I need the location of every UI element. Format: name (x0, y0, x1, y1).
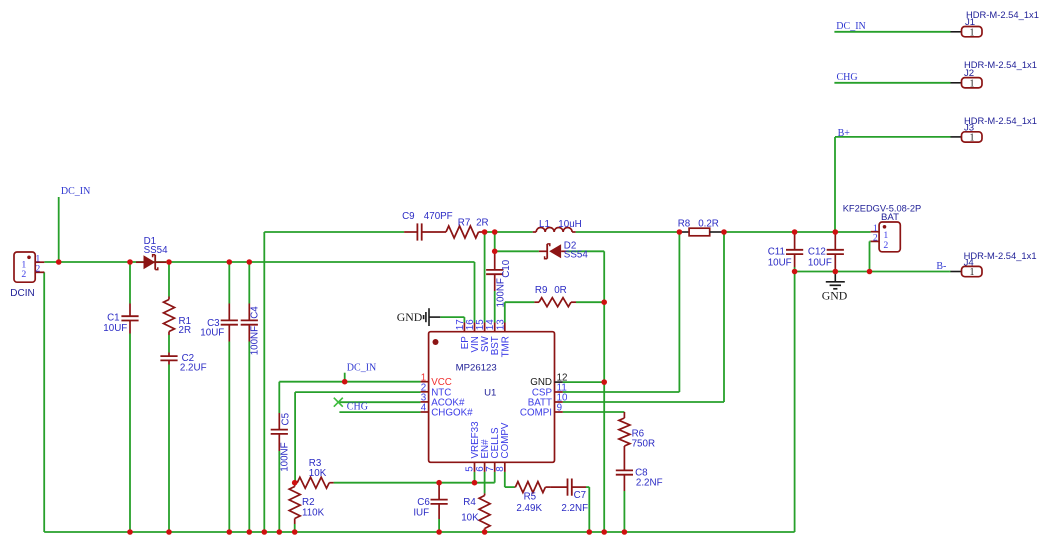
wire: main DC_IN rail y262 from DCIN pin1 to VIN corner (44, 261, 474, 263)
wire: EP ground link to U1 pin 17 (440, 316, 464, 318)
svg-text:2.2NF: 2.2NF (636, 477, 663, 488)
U1 pin 7 CELLS (494, 462, 496, 472)
wire: BST/C10 drop from SW node (494, 232, 496, 252)
connector J4 HDR-M-2.54_1x1 (951, 271, 962, 273)
wire: C10 to U1 pin 14 (494, 291, 496, 323)
svg-text:C12: C12 (808, 247, 826, 258)
wire: R4 bottom to bus (484, 529, 486, 533)
svg-text:R7: R7 (458, 218, 471, 229)
svg-text:SS54: SS54 (564, 249, 589, 260)
connector BAT KF2EDGV-5.08-2P (879, 222, 900, 252)
svg-text:C7: C7 (574, 490, 587, 501)
capacitor C8 2.2NF (616, 469, 633, 471)
capacitor C5 100NF (278, 413, 280, 430)
svg-text:J4: J4 (964, 258, 975, 269)
U1 pin 14 BST (494, 323, 496, 332)
capacitor C7 2.2NF (550, 486, 567, 488)
svg-text:0.2R: 0.2R (698, 218, 719, 229)
svg-text:10K: 10K (461, 512, 479, 523)
wire: C4 branch (248, 262, 250, 304)
U1 pin 3 ACOK# (421, 401, 429, 403)
svg-text:2.2UF: 2.2UF (180, 363, 207, 374)
svg-text:2: 2 (35, 263, 40, 274)
wire: C6 bottom to bus (438, 519, 440, 532)
unconnected-end marker X on ACOK# wire (334, 398, 343, 407)
svg-text:C5: C5 (281, 412, 292, 425)
svg-text:R5: R5 (524, 491, 537, 502)
svg-text:13: 13 (495, 319, 506, 330)
svg-text:100NF: 100NF (250, 326, 261, 355)
capacitor C10 100NF bootstrap (494, 252, 496, 270)
wire: BAT pin2 down-leg (870, 240, 871, 242)
wire: DC_IN vertical drop to main rail (58, 197, 60, 262)
U1 pin 9 COMPI (555, 411, 563, 413)
svg-text:10UF: 10UF (200, 328, 224, 339)
resistor R2 110K (294, 483, 296, 487)
U1 pin 12 GND (555, 381, 563, 383)
svg-text:J3: J3 (964, 123, 974, 134)
svg-text:2R: 2R (179, 325, 192, 336)
svg-text:2.49K: 2.49K (516, 503, 542, 514)
capacitor C1 (129, 304, 131, 317)
resistor R3 10K (295, 482, 297, 484)
svg-text:COMPV: COMPV (500, 422, 511, 458)
wire: CSP riser x679 from R8 left (678, 232, 680, 392)
svg-text:750R: 750R (632, 438, 655, 449)
wire: TMR riser and R9 left segment (504, 302, 506, 322)
wire: J4 B- lead (949, 271, 950, 273)
wire: ACOK# line to U1 pin 3 (338, 401, 420, 403)
wire: NTC drop to R2/R3 junction (294, 392, 296, 483)
wire: ground bus bottom (44, 531, 794, 533)
svg-text:HDR-M-2.54_1x1: HDR-M-2.54_1x1 (964, 250, 1037, 261)
svg-text:2: 2 (21, 269, 26, 280)
capacitor C3 10UF (228, 304, 230, 321)
wire: CELLS riser to U1 pin 7 (494, 472, 496, 483)
svg-text:10UF: 10UF (808, 258, 832, 269)
svg-text:DC_IN: DC_IN (61, 186, 90, 197)
svg-text:110K: 110K (302, 507, 325, 518)
wire: SW node line R7 to L1 (483, 231, 533, 233)
svg-text:HDR-M-2.54_1x1: HDR-M-2.54_1x1 (964, 115, 1037, 126)
svg-text:2: 2 (873, 233, 878, 244)
capacitor C9 470PF (404, 231, 417, 233)
U1 pin 6 EN# (484, 462, 486, 472)
wire: DC_IN label stub at VCC line (344, 373, 346, 382)
svg-text:BAT: BAT (881, 212, 899, 223)
U1 pin 8 COMPV (504, 462, 506, 472)
svg-text:C9: C9 (402, 211, 415, 222)
svg-text:CHG: CHG (837, 72, 858, 83)
svg-text:MP26123: MP26123 (456, 363, 497, 374)
wire: C5 branch from VCC corner to bus (278, 382, 280, 413)
svg-text:1: 1 (970, 78, 975, 89)
wire: snubber ground leg x264 from top line to bus (263, 232, 265, 532)
connector J3 HDR-M-2.54_1x1 (951, 136, 962, 138)
svg-text:U1: U1 (484, 387, 496, 398)
capacitor C2 2.2UF (168, 353, 170, 357)
svg-text:2.2NF: 2.2NF (561, 503, 588, 514)
wire: R1/C2 branch (168, 262, 170, 297)
wire: COMPI line from U1 pin 9 to R6 (563, 411, 625, 413)
svg-text:10K: 10K (309, 468, 327, 479)
wire: C1 branch (129, 262, 131, 304)
wire: J2 CHG lead (834, 82, 950, 84)
svg-text:HDR-M-2.54_1x1: HDR-M-2.54_1x1 (964, 59, 1037, 70)
wire: top snubber line y232 to C9 (264, 231, 404, 233)
svg-text:100NF: 100NF (280, 442, 291, 471)
svg-text:10UF: 10UF (103, 323, 127, 334)
svg-text:SS54: SS54 (144, 245, 169, 256)
svg-text:GND: GND (822, 289, 848, 303)
svg-text:4: 4 (421, 403, 427, 414)
svg-text:C11: C11 (768, 247, 785, 258)
wire: R2 bottom to bus (294, 524, 296, 532)
wire: NTC line from divider to U1 pin 2 (295, 391, 421, 393)
wire: EN# drop from U1 pin 6 to R4 (484, 472, 486, 494)
wire: J3 B+ lead (835, 136, 951, 138)
svg-text:GND: GND (397, 310, 423, 324)
svg-text:DC_IN: DC_IN (836, 21, 865, 32)
ground symbol GND at battery (834, 272, 836, 282)
capacitor C6 IUF (438, 483, 440, 500)
capacitor C4 100NF (248, 304, 250, 321)
svg-text:2R: 2R (476, 218, 489, 229)
svg-text:100NF: 100NF (496, 278, 507, 307)
svg-text:L1: L1 (539, 219, 550, 230)
wire: BATT riser x724 from R8 right (723, 232, 725, 402)
svg-text:10UF: 10UF (768, 258, 792, 269)
svg-text:IUF: IUF (413, 507, 429, 518)
wire: C11 branch lower (794, 267, 796, 272)
svg-text:8: 8 (495, 466, 506, 472)
wire: BATT line to U1 pin 10 (563, 401, 724, 403)
wire: VCC line from C5 corner to U1 pin 1 (279, 381, 420, 383)
capacitor C11 10UF (794, 232, 796, 250)
connector J2 HDR-M-2.54_1x1 (951, 82, 962, 84)
wire: L1 to R8 segment (576, 231, 680, 233)
U1 pin 11 CSP (555, 391, 563, 393)
capacitor C12 10UF (834, 232, 836, 250)
svg-text:R9: R9 (535, 285, 548, 296)
wire: DCIN pin2 down-leg to ground bus (43, 272, 45, 532)
wire: VREF33 riser to U1 pin 5 (474, 472, 476, 483)
svg-text:0R: 0R (554, 285, 567, 296)
wire: C7 output drop to bus (586, 486, 589, 488)
U1 pin 10 BATT (555, 401, 563, 403)
svg-text:1: 1 (970, 133, 975, 144)
svg-text:DC_IN: DC_IN (347, 363, 376, 374)
U1 pin 1 VCC (421, 381, 429, 383)
inductor L1 10uH (533, 231, 537, 233)
U1 pin 13 TMR (504, 323, 506, 332)
svg-text:10uH: 10uH (558, 219, 581, 230)
svg-text:C10: C10 (501, 259, 512, 278)
diode D2 SS54 (539, 250, 547, 252)
wire: right ground return x794 to bus (794, 272, 796, 533)
svg-text:HDR-M-2.54_1x1: HDR-M-2.54_1x1 (966, 9, 1039, 20)
wire: x604 vertical junction column to ground bus (603, 302, 605, 532)
svg-text:B+: B+ (838, 128, 851, 139)
resistor R4 10K (484, 493, 486, 495)
wire: GND pin12 line to junction column (563, 381, 604, 383)
U1 pin 4 CHGOK# (421, 411, 429, 413)
svg-text:R8: R8 (678, 218, 691, 229)
svg-text:CHG: CHG (347, 402, 368, 413)
resistor R7 2R (446, 226, 479, 238)
wire: VREF33 line y482.7 R3 to pin7 corner (334, 482, 495, 484)
wire: CSP line to U1 pin 11 (563, 391, 680, 393)
svg-text:DCIN: DCIN (10, 288, 34, 299)
wire: R9 right segment to junction (576, 301, 604, 303)
connector DCIN J? (14, 252, 35, 282)
U1 pin 16 VIN (474, 323, 476, 332)
wire: D2 line y251.3 (495, 250, 539, 252)
wire: B+ drop from J3 to battery rail (834, 137, 836, 232)
wire: VIN drop from rail to U1 pin 16 (474, 262, 476, 323)
wire: J1 DC_IN lead (834, 31, 950, 33)
wire: CHGOK# line to U1 pin 4 (339, 411, 420, 413)
svg-text:J2: J2 (964, 68, 974, 79)
U1 pin 17 EP (463, 323, 465, 332)
svg-text:CHGOK#: CHGOK# (431, 408, 473, 419)
wire: SW drop to U1 pin 15 (484, 232, 486, 323)
svg-text:470PF: 470PF (424, 211, 453, 222)
svg-text:C1: C1 (107, 313, 120, 324)
op-amp U1 MP26123 charger IC body (429, 332, 555, 463)
wire: ground link line y271.5 C11-C12-BAT2-J4 (795, 271, 950, 273)
wire: COMPV drop from U1 pin 8 to R5 (504, 472, 506, 487)
svg-text:B-: B- (936, 261, 946, 272)
svg-text:2: 2 (883, 240, 888, 251)
wire: D2 anode drop to R9 junction (603, 251, 605, 302)
diode D1 SS54 (136, 261, 144, 263)
wire: C3 branch (228, 262, 230, 304)
resistor R8 0.2R current sense (679, 231, 689, 233)
wire: R8 to C11/C12/BAT segment (724, 231, 871, 233)
resistor R5 2.49K (514, 486, 517, 488)
svg-text:TMR: TMR (500, 336, 511, 357)
svg-text:9: 9 (557, 403, 562, 414)
resistor R6 750R (623, 412, 625, 418)
resistor R9 0R (534, 301, 539, 303)
svg-text:1: 1 (970, 27, 975, 38)
U1 pin 2 NTC (421, 391, 429, 393)
connector J1 HDR-M-2.54_1x1 (951, 31, 962, 33)
wire: R6/C8 branch lower (623, 491, 625, 532)
svg-text:C4: C4 (250, 306, 261, 319)
svg-text:J1: J1 (965, 17, 975, 28)
resistor R1 2R (168, 297, 170, 300)
svg-text:1: 1 (970, 267, 975, 278)
svg-text:R4: R4 (463, 497, 476, 508)
U1 pin 5 VREF33 (474, 462, 476, 472)
svg-text:COMPI: COMPI (520, 408, 552, 419)
U1 pin 15 SW (484, 323, 486, 332)
